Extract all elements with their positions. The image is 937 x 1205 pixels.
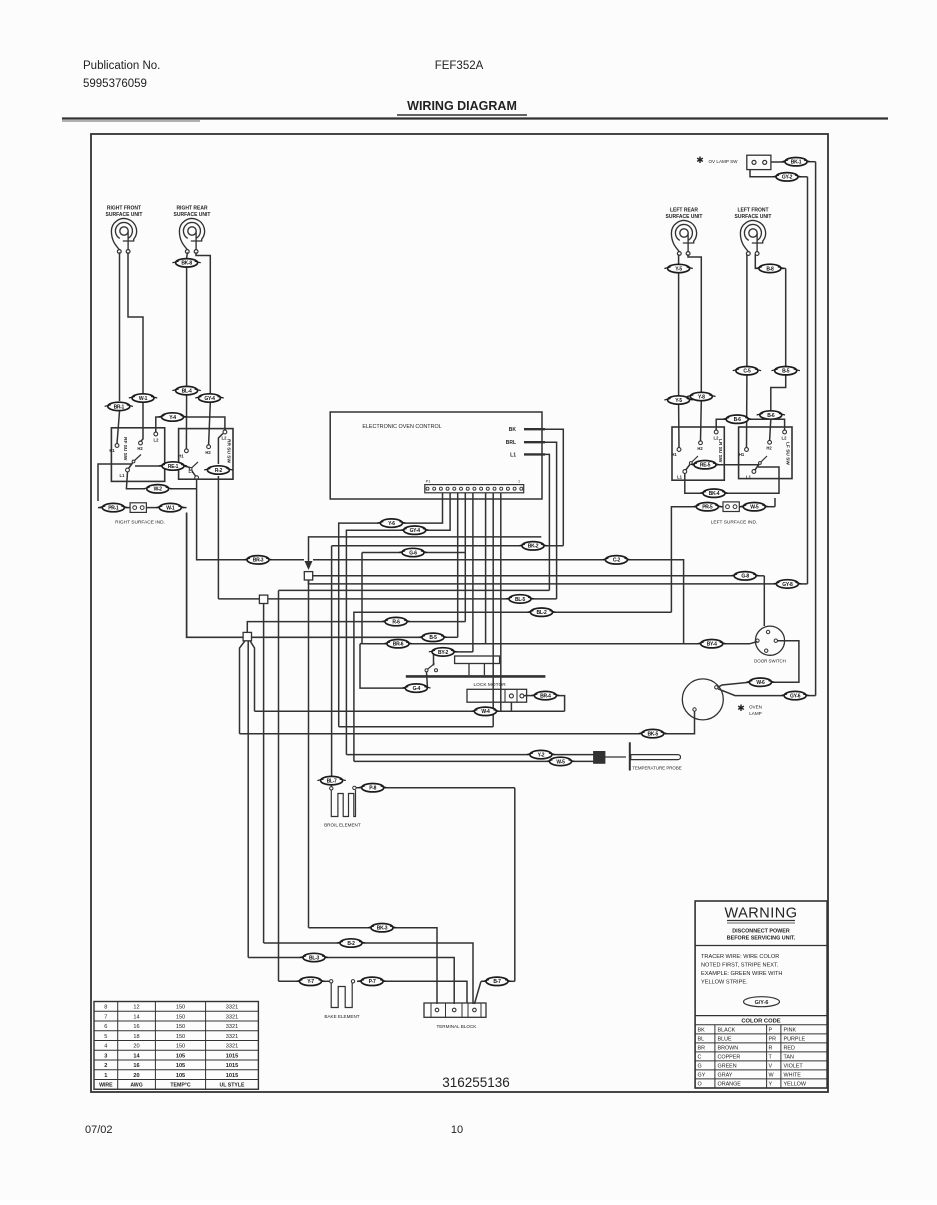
svg-text:TERMINAL BLOCK: TERMINAL BLOCK <box>436 1024 477 1029</box>
wire gauge table <box>94 1002 258 1090</box>
wire box2 L2 down through R-2 oval <box>218 434 223 465</box>
oval GY-4b <box>195 394 223 402</box>
oval BK-8 <box>172 259 200 267</box>
svg-text:GY: GY <box>698 1073 706 1079</box>
svg-text:G/Y-6: G/Y-6 <box>755 1000 769 1006</box>
svg-text:07/02: 07/02 <box>85 1124 113 1136</box>
wire y537 line from arrow <box>309 537 542 560</box>
svg-text:10: 10 <box>451 1124 463 1136</box>
box1 terminal L2 <box>154 432 158 436</box>
svg-text:WARNING: WARNING <box>724 906 797 922</box>
oval BR-4 <box>531 691 559 699</box>
svg-text:C-2: C-2 <box>613 558 621 564</box>
svg-text:1: 1 <box>518 480 520 484</box>
svg-text:PURPLE: PURPLE <box>784 1037 806 1043</box>
wire pin drop 7 to y726 line <box>492 493 494 727</box>
wire G-6 line y552 <box>362 552 402 554</box>
box1 terminal H2 <box>139 441 143 445</box>
switch box RF SU SW <box>111 428 164 482</box>
wire pin drop 5 to BY-2 line <box>472 493 474 652</box>
svg-text:BK-2: BK-2 <box>528 544 539 550</box>
wire pin drop 8 to W-4 line <box>500 493 502 712</box>
wire J1 right to door switch <box>313 575 734 577</box>
wire BR-3 line continues to C-2 <box>313 559 606 561</box>
wire pin drop 3 to B-5 line <box>457 493 459 638</box>
svg-text:2: 2 <box>104 1063 107 1069</box>
svg-text:DISCONNECT POWER: DISCONNECT POWER <box>732 929 790 935</box>
svg-text:6: 6 <box>104 1024 107 1030</box>
svg-text:H2: H2 <box>697 446 703 451</box>
svg-text:BK: BK <box>698 1028 706 1034</box>
svg-text:TEMPERATURE PROBE: TEMPERATURE PROBE <box>632 765 682 770</box>
probe flange and body <box>629 742 631 770</box>
wire x278 bundle <box>278 590 280 981</box>
svg-text:BROWN: BROWN <box>718 1046 739 1052</box>
svg-text:BR-4: BR-4 <box>540 694 551 700</box>
oval Y-5 upper <box>664 264 692 272</box>
svg-text:BK-1: BK-1 <box>791 160 802 166</box>
oval BK-2 <box>519 542 547 550</box>
wire box3 L2 bridge to box4 L2 <box>716 419 726 430</box>
svg-text:H1: H1 <box>178 454 184 459</box>
oval P-7 <box>358 977 386 985</box>
svg-text:H2: H2 <box>137 446 143 451</box>
svg-text:B-7: B-7 <box>493 979 501 985</box>
right surface indicator row <box>98 507 103 509</box>
warning box <box>695 901 827 1088</box>
svg-text:P-7: P-7 <box>369 979 376 985</box>
box4 terminal H1 <box>745 448 749 452</box>
wire G-4 line to lock switch <box>360 644 405 688</box>
box2 terminal H2 <box>207 445 211 449</box>
svg-text:W-1: W-1 <box>139 396 148 402</box>
svg-text:BK-4: BK-4 <box>709 491 720 497</box>
svg-text:YELLOW STRIPE.: YELLOW STRIPE. <box>701 980 748 986</box>
oval BY-2 <box>429 648 457 656</box>
oval BK-3 <box>368 924 396 932</box>
switch box LF SU SW <box>739 427 792 479</box>
oval Y-4 <box>158 413 186 421</box>
oval C-2 <box>602 556 630 564</box>
wire y590 run <box>279 589 550 591</box>
wire door switch right to lamp <box>772 641 799 683</box>
svg-text:C: C <box>698 1055 702 1061</box>
svg-text:BROIL ELEMENT: BROIL ELEMENT <box>324 822 361 827</box>
door switch <box>755 626 784 655</box>
wire RR right terminal jog to box2 H2 <box>196 252 210 393</box>
svg-text:LAMP: LAMP <box>749 711 762 716</box>
svg-text:B-8: B-8 <box>766 266 774 272</box>
svg-text:RE-1: RE-1 <box>168 464 179 470</box>
svg-text:WIRE: WIRE <box>99 1083 113 1089</box>
svg-text:BLUE: BLUE <box>718 1037 732 1043</box>
svg-text:COLOR CODE: COLOR CODE <box>741 1018 780 1024</box>
wire lamp bottom long run y733 <box>664 711 695 734</box>
oval W-5b <box>546 757 574 765</box>
box1 terminal L1 and switch <box>126 468 130 472</box>
svg-text:R-2: R-2 <box>215 468 223 474</box>
svg-text:P1: P1 <box>426 480 431 484</box>
svg-text:Y: Y <box>769 1082 773 1088</box>
svg-text:Y-7: Y-7 <box>307 979 314 985</box>
oval BR-3 <box>244 556 272 564</box>
svg-text:RR SU SW: RR SU SW <box>226 439 232 463</box>
oval B-6r <box>757 411 785 419</box>
svg-text:L2: L2 <box>222 436 228 441</box>
svg-text:5: 5 <box>104 1034 107 1040</box>
svg-text:GREEN: GREEN <box>718 1064 737 1070</box>
wire broil feed line y546 <box>332 545 522 547</box>
svg-text:H1: H1 <box>671 452 677 457</box>
svg-text:B-5: B-5 <box>782 369 790 375</box>
svg-text:3321: 3321 <box>226 1034 238 1040</box>
oval R-2 <box>204 466 232 474</box>
svg-text:18: 18 <box>133 1034 139 1040</box>
left front surface unit <box>740 221 765 252</box>
svg-text:Publication No.: Publication No. <box>83 60 160 72</box>
oval B-7 <box>483 977 511 985</box>
wire J1 lower right GY-8 line <box>309 580 777 584</box>
oval W-1 row <box>156 503 184 511</box>
svg-text:PINK: PINK <box>784 1028 797 1034</box>
oval BL-5 <box>506 595 534 603</box>
box4 terminal L1 and switch <box>752 470 756 474</box>
svg-text:B-2: B-2 <box>347 941 355 947</box>
wire L1 stub right and down <box>545 454 549 590</box>
svg-text:LEFT SURFACE IND.: LEFT SURFACE IND. <box>711 520 758 526</box>
svg-text:GRAY: GRAY <box>718 1073 733 1079</box>
svg-text:YELLOW: YELLOW <box>784 1082 807 1088</box>
svg-text:OVEN: OVEN <box>749 705 762 710</box>
box1 terminal H1 <box>115 444 119 448</box>
svg-text:W-6: W-6 <box>756 680 765 686</box>
wire right edge vertical x815 <box>815 162 817 696</box>
svg-text:GY-8: GY-8 <box>782 582 793 588</box>
wire BRL stub right and down <box>545 442 557 599</box>
svg-text:B-6: B-6 <box>734 417 742 423</box>
oval PR-5 <box>693 503 721 511</box>
oval G-4 <box>402 684 430 692</box>
svg-text:BR-1: BR-1 <box>114 404 125 410</box>
svg-text:WIRING DIAGRAM: WIRING DIAGRAM <box>407 99 517 113</box>
svg-text:C-5: C-5 <box>743 369 751 375</box>
oval G-6 <box>399 548 427 556</box>
left surface indicator row <box>671 507 696 613</box>
oval C-5 <box>733 367 761 375</box>
svg-text:SURFACE UNIT: SURFACE UNIT <box>174 212 211 218</box>
lock switch <box>425 669 428 672</box>
oval BR-1 on RF left wire <box>105 402 133 410</box>
wire right edge vertical x807 <box>807 177 809 584</box>
oval B-5 <box>419 633 447 641</box>
wire LR left terminal to box3 H1 <box>678 254 680 264</box>
svg-text:20: 20 <box>133 1044 139 1050</box>
junction square J3 <box>243 632 251 640</box>
wire lock motor to BR-4 <box>524 695 534 697</box>
svg-text:P: P <box>769 1028 773 1034</box>
box2 terminal L1 and switch <box>195 476 199 480</box>
svg-text:VIOLET: VIOLET <box>784 1064 804 1070</box>
svg-text:8: 8 <box>104 1005 107 1011</box>
svg-text:RIGHT SURFACE IND.: RIGHT SURFACE IND. <box>115 520 165 526</box>
oval BL-7 <box>317 776 345 784</box>
wire J2 right to BRL drop <box>268 598 509 600</box>
svg-text:Y-2: Y-2 <box>538 753 545 759</box>
svg-text:105: 105 <box>176 1063 185 1069</box>
lock motor body <box>467 689 527 702</box>
svg-text:BL-5: BL-5 <box>515 597 525 603</box>
svg-text:✱: ✱ <box>696 155 704 165</box>
svg-text:GY-2: GY-2 <box>782 175 793 181</box>
svg-text:150: 150 <box>176 1005 185 1011</box>
wire probe upper <box>346 754 530 756</box>
wire J3 center leg <box>247 641 249 958</box>
svg-text:COPPER: COPPER <box>718 1055 741 1061</box>
wire lock return with W-4 <box>255 710 475 712</box>
terminal block <box>424 1003 486 1017</box>
svg-text:R: R <box>769 1046 773 1052</box>
svg-text:3321: 3321 <box>226 1005 238 1011</box>
svg-text:RED: RED <box>784 1046 795 1052</box>
svg-text:BRL: BRL <box>506 440 516 446</box>
oval BL-4 <box>172 386 200 394</box>
wire J2 line from R-2 <box>218 598 259 600</box>
svg-text:RIGHT REAR: RIGHT REAR <box>176 206 208 212</box>
oval B-5r <box>772 367 800 375</box>
svg-text:RIGHT FRONT: RIGHT FRONT <box>107 206 141 212</box>
svg-text:L2: L2 <box>714 436 720 441</box>
svg-text:ELECTRONIC OVEN CONTROL: ELECTRONIC OVEN CONTROL <box>362 424 441 430</box>
oval B-2 <box>337 939 365 947</box>
svg-text:V: V <box>769 1064 773 1070</box>
wire BR-3 line from box2 L1 <box>197 480 247 560</box>
svg-text:7: 7 <box>104 1014 107 1020</box>
svg-text:G: G <box>698 1064 702 1070</box>
svg-text:H2: H2 <box>766 446 772 451</box>
wire BY-2 line <box>433 652 435 666</box>
oval Y-7 <box>296 977 324 985</box>
oven lamp <box>682 679 723 720</box>
svg-text:B-5: B-5 <box>429 635 437 641</box>
svg-text:BR-6: BR-6 <box>393 642 404 648</box>
svg-text:150: 150 <box>176 1014 185 1020</box>
wire h4 bake run <box>279 980 300 982</box>
svg-text:Y-5: Y-5 <box>675 266 682 272</box>
switch box LR SU SW <box>672 427 724 480</box>
svg-text:BY-2: BY-2 <box>438 650 448 656</box>
svg-text:BL-3: BL-3 <box>309 955 319 961</box>
lock motor bar <box>406 675 546 678</box>
svg-text:BL: BL <box>698 1037 705 1043</box>
wire y726 run <box>339 726 494 728</box>
svg-text:BL-4: BL-4 <box>182 389 192 395</box>
svg-text:16: 16 <box>133 1024 139 1030</box>
oval B-6 bridge <box>723 415 751 423</box>
box3 terminal L1 and switch <box>683 470 687 474</box>
indicator lamp box left <box>130 503 146 513</box>
svg-text:14: 14 <box>133 1014 139 1020</box>
wire h2 B-2 run <box>264 942 340 944</box>
box3 terminal L2 <box>714 430 718 434</box>
wire RF left terminal to H1 <box>119 252 121 401</box>
oval W-2 <box>144 485 172 493</box>
color code table <box>695 1024 827 1026</box>
svg-text:GY-4: GY-4 <box>204 396 215 402</box>
box3 terminal H1 <box>677 448 681 452</box>
svg-text:L1: L1 <box>746 475 752 480</box>
oval BL-2 <box>527 608 555 616</box>
svg-text:L2: L2 <box>154 438 160 443</box>
wire lamp to GY-6 line <box>718 689 784 696</box>
lock motor cam <box>455 656 500 664</box>
svg-text:W-2: W-2 <box>154 487 163 493</box>
svg-text:B-6: B-6 <box>767 413 775 419</box>
wire pin drop 4 to RL line <box>464 493 466 622</box>
svg-text:105: 105 <box>176 1073 185 1079</box>
svg-text:BEFORE SERVICING UNIT.: BEFORE SERVICING UNIT. <box>727 936 796 942</box>
left rear surface unit <box>671 221 696 252</box>
wire h1 BK-3 run <box>309 927 372 929</box>
wire RF right terminal jog to H2 <box>128 252 143 393</box>
svg-text:BLACK: BLACK <box>718 1028 736 1034</box>
svg-text:105: 105 <box>176 1053 185 1059</box>
wire pin drop 2 to GY-4 line <box>426 493 451 530</box>
svg-text:Y-6: Y-6 <box>388 521 395 527</box>
oval BK-4 <box>700 489 728 497</box>
oval BY-4 <box>698 640 726 648</box>
svg-text:3321: 3321 <box>226 1024 238 1030</box>
svg-text:L2: L2 <box>782 436 788 441</box>
wire x785 down to box4 H2 <box>785 268 787 366</box>
svg-text:W-5: W-5 <box>750 505 759 511</box>
oval G-8 <box>731 572 759 580</box>
svg-text:FEF352A: FEF352A <box>435 60 484 72</box>
svg-text:WHITE: WHITE <box>784 1073 802 1079</box>
wire W-1 down and thick line to J3 <box>187 513 243 638</box>
svg-text:3321: 3321 <box>226 1014 238 1020</box>
oval PR-1 <box>99 503 127 511</box>
svg-text:1: 1 <box>104 1073 107 1079</box>
wire pin drop 1 to Y-6 line <box>402 493 443 523</box>
svg-text:BR: BR <box>698 1046 706 1052</box>
switch box RR SU SW <box>179 429 233 480</box>
svg-text:14: 14 <box>133 1053 140 1059</box>
oval RE-1 <box>159 462 187 470</box>
wire lamp-sw to BK-1 oval <box>771 161 785 163</box>
svg-text:GY-6: GY-6 <box>790 694 801 700</box>
wire RR left terminal to box2 H1 <box>186 252 189 258</box>
svg-text:1015: 1015 <box>226 1073 238 1079</box>
svg-text:UL STYLE: UL STYLE <box>220 1083 246 1089</box>
oval BK-1 <box>782 158 810 166</box>
svg-text:L1: L1 <box>677 475 683 480</box>
svg-text:P-8: P-8 <box>369 786 376 792</box>
box2 terminal H1 <box>185 449 189 453</box>
svg-text:W-4: W-4 <box>481 709 490 715</box>
header rule <box>62 117 888 119</box>
box4 terminal H2 <box>768 440 772 444</box>
wire J3 left leg <box>240 641 246 734</box>
wire h3 BL-3 run <box>248 957 303 959</box>
oval GY-6 <box>781 691 809 699</box>
broil element <box>330 787 333 790</box>
wire J3 right leg <box>250 641 255 712</box>
diagram border <box>91 134 828 1092</box>
wire lamp-sw bottom to GY-2 oval <box>750 170 776 177</box>
box4 terminal L2 <box>783 430 787 434</box>
svg-text:3321: 3321 <box>226 1044 238 1050</box>
svg-text:OV LAMP SW: OV LAMP SW <box>708 159 738 164</box>
svg-text:LR SU SW: LR SU SW <box>717 439 723 463</box>
svg-text:LEFT FRONT: LEFT FRONT <box>737 208 768 214</box>
svg-text:LEFT REAR: LEFT REAR <box>670 208 698 214</box>
box2 terminal L2 <box>223 430 227 434</box>
wire J2 down <box>263 604 265 944</box>
junction arrow into J1 <box>305 561 313 570</box>
svg-text:SURFACE UNIT: SURFACE UNIT <box>666 214 703 220</box>
probe fuse block <box>594 752 605 764</box>
svg-text:NOTED FIRST, STRIPE NEXT.: NOTED FIRST, STRIPE NEXT. <box>701 963 779 969</box>
svg-text:L1: L1 <box>120 473 126 478</box>
wire box1 L2 bridge to box2 L2 <box>156 417 162 432</box>
oval B-8 <box>756 264 784 272</box>
svg-text:T: T <box>769 1055 773 1061</box>
wire box1 switch to left x98 <box>98 464 132 501</box>
svg-text:Y-4: Y-4 <box>169 415 176 421</box>
svg-text:LOCK MOTOR: LOCK MOTOR <box>474 682 507 688</box>
svg-text:TRACER WIRE: WIRE COLOR: TRACER WIRE: WIRE COLOR <box>701 954 779 960</box>
svg-text:1015: 1015 <box>226 1053 238 1059</box>
oval W-5 row <box>740 503 768 511</box>
bake element <box>330 980 333 983</box>
svg-text:BL-7: BL-7 <box>327 779 337 785</box>
svg-text:BAKE ELEMENT: BAKE ELEMENT <box>324 1014 359 1019</box>
svg-text:PR: PR <box>769 1037 777 1043</box>
svg-text:GY-4: GY-4 <box>410 528 421 534</box>
EOC strip pins <box>426 487 429 490</box>
wire y612 run <box>553 611 672 613</box>
wire J3 right thick to pin6 <box>252 636 423 638</box>
wire BY-4 to door switch left <box>723 643 751 645</box>
svg-text:BK-3: BK-3 <box>377 926 388 932</box>
oval P-8 <box>359 784 387 792</box>
svg-text:1015: 1015 <box>226 1063 238 1069</box>
svg-text:H1: H1 <box>739 452 745 457</box>
svg-text:H2: H2 <box>205 450 211 455</box>
wire LF left terminal to box4 H1 <box>746 254 748 366</box>
svg-text:PR-5: PR-5 <box>702 505 713 511</box>
indicator lamp box right <box>723 502 739 512</box>
junction square J1 <box>304 572 312 580</box>
oval W-4 <box>471 707 499 715</box>
oval W-6 <box>746 678 774 686</box>
oval Y-6 <box>377 519 405 527</box>
wire LR right terminal jog to box3 H2 <box>688 254 701 392</box>
svg-text:BR-3: BR-3 <box>253 558 264 564</box>
oval Y-5 lower <box>664 396 692 404</box>
wire B-7 to terminal block <box>481 980 486 982</box>
oval RE-5 <box>691 461 719 469</box>
svg-text:LF SU SW: LF SU SW <box>785 442 791 465</box>
svg-text:RE-5: RE-5 <box>700 463 711 469</box>
EOC terminal strip <box>425 485 524 493</box>
wire J1 down long <box>308 580 310 928</box>
svg-text:BK: BK <box>509 427 517 433</box>
svg-text:4: 4 <box>104 1044 107 1050</box>
EOC box <box>330 412 542 499</box>
oval BK-5 <box>639 729 667 737</box>
wire box3 L1 down U to box4 L1 via BK-4 <box>685 474 703 494</box>
